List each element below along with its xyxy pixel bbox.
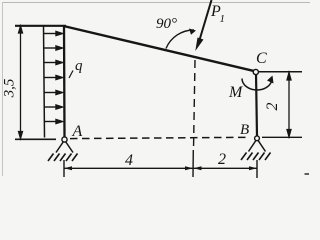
scan border top xyxy=(2,2,310,4)
distributed load arrow 2 xyxy=(44,46,63,50)
distributed load arrow 6 xyxy=(44,105,62,109)
svg-text:4: 4 xyxy=(125,152,133,169)
moment M arrowhead xyxy=(267,76,274,84)
scan border left xyxy=(2,2,4,176)
force P1 arrow xyxy=(195,0,211,51)
moment M arc xyxy=(242,79,272,91)
90 arc arrowhead xyxy=(189,29,196,35)
sloped member top corner to C xyxy=(64,26,257,72)
distributed load arrow 5 xyxy=(44,91,62,95)
distributed load left line xyxy=(44,26,45,138)
vertical dashed line under load point xyxy=(194,60,196,150)
support B triangle xyxy=(249,140,266,151)
distributed load arrow 4 xyxy=(44,76,63,80)
distributed load arrow 7 xyxy=(44,120,62,124)
support A hatching xyxy=(48,154,78,162)
svg-text:B: B xyxy=(240,122,249,138)
svg-text:M: M xyxy=(228,84,244,101)
extension line right of C xyxy=(259,71,303,73)
baseline extension left of A xyxy=(15,138,56,140)
svg-text:90°: 90° xyxy=(156,16,177,32)
column member (A to top corner) xyxy=(63,25,66,138)
svg-text:1: 1 xyxy=(220,13,226,25)
90 degree arc xyxy=(166,30,194,49)
bottom dimension line xyxy=(64,167,257,169)
vertical tick at load point to dim line xyxy=(192,150,194,177)
extension line right of B xyxy=(262,136,302,138)
right vertical member C to B xyxy=(256,73,257,137)
extension tick below A xyxy=(63,160,65,177)
support B hatching xyxy=(241,153,271,161)
dimension 3,5 line xyxy=(19,26,23,139)
svg-text:2: 2 xyxy=(218,151,226,168)
small speck bottom right xyxy=(305,173,310,175)
dashed line A to B xyxy=(70,137,250,138)
dim 2 right arrowhead xyxy=(249,166,257,170)
svg-text:A: A xyxy=(72,123,83,140)
dim 4 right arrowhead xyxy=(185,166,193,170)
svg-text:3,5: 3,5 xyxy=(2,78,18,98)
distributed load arrow 1 xyxy=(44,32,63,36)
support A triangle xyxy=(56,142,73,153)
label q with leader xyxy=(69,58,83,78)
extension tick below B xyxy=(256,160,258,178)
joint circle C xyxy=(253,69,258,74)
svg-text:C: C xyxy=(256,50,267,67)
joint circle A xyxy=(62,137,67,142)
svg-text:2: 2 xyxy=(264,103,281,111)
paper background xyxy=(0,0,312,178)
dimension 2 right line xyxy=(287,73,291,137)
svg-text:q: q xyxy=(75,58,83,74)
dim 4 left arrowhead xyxy=(64,166,72,170)
joint circle B xyxy=(255,136,260,141)
dim 2 left arrowhead xyxy=(194,166,202,170)
distributed load arrow 3 xyxy=(44,61,63,65)
top extension line (left of corner) xyxy=(15,25,66,27)
